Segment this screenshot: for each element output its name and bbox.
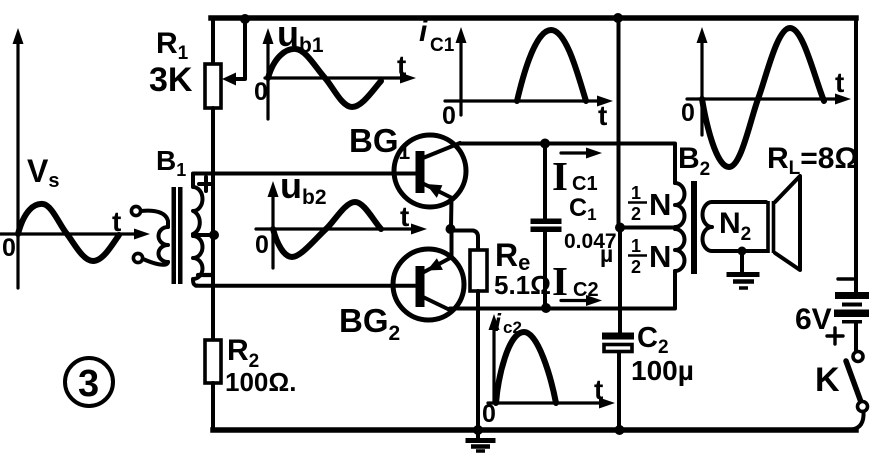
node: C2 / ground rail junction (615, 425, 625, 435)
svg-text:BG1: BG1 (349, 122, 411, 164)
transistor BG1 emitter stroke with PNP arrow (424, 184, 452, 198)
speaker coil box top/bottom (712, 202, 766, 251)
svg-text:RL=8Ω: RL=8Ω (767, 142, 859, 179)
wire: battery to switch terminal (854, 322, 858, 351)
resistor Re body (470, 250, 487, 291)
wire: right edge down to battery (854, 18, 858, 293)
node: top rail / mid rail junction (613, 13, 623, 23)
svg-text:C1: C1 (569, 194, 597, 224)
switch K blade (846, 361, 861, 402)
transformer B2 secondary N2 winding (703, 202, 712, 251)
svg-text:µ: µ (600, 241, 613, 267)
wire: bottom ground rail (213, 427, 856, 433)
svg-text:I: I (552, 153, 568, 199)
wire: BG2 base line (196, 284, 417, 288)
wire: BG1 base line (193, 172, 418, 176)
battery 6V plates (835, 292, 869, 299)
transistor BG1 circle (394, 135, 466, 207)
svg-text:B1: B1 (156, 145, 186, 180)
wire: BG2 emitter lead up to emitter node (450, 231, 454, 257)
wire: BG1 emitter lead down to emitter node (449, 198, 454, 227)
label - polarity at secondary bottom (198, 273, 212, 277)
transistor BG2 collector stroke (423, 297, 452, 311)
waveform: i_c2 half-sine pulse (496, 332, 556, 403)
svg-text:3: 3 (78, 363, 99, 405)
transformer B1 primary winding (159, 227, 169, 262)
svg-text:0: 0 (681, 99, 695, 127)
wire: BG1 collector line to B2 top (459, 144, 675, 184)
svg-text:2: 2 (631, 257, 641, 277)
wire: R2 bottom lead to ground rail (211, 383, 215, 430)
wire: BG2 collector line to B2 bottom (450, 271, 675, 309)
svg-text:K: K (815, 361, 840, 399)
svg-text:t: t (835, 67, 844, 98)
graph: u_b1 vertical axis (266, 38, 269, 119)
capacitor C2 plates (602, 333, 634, 340)
node: C1 top junction on collector line (540, 139, 550, 149)
wire: emitter node over to Re top (451, 231, 479, 251)
switch K top terminal (853, 352, 863, 362)
svg-text:B2: B2 (678, 142, 710, 180)
wire: B1 primary bottom to input bottom terminal (143, 259, 168, 265)
graph: u_b2 horizontal axis (256, 227, 417, 230)
svg-text:Vs: Vs (27, 153, 59, 192)
switch K bottom terminal (858, 402, 868, 412)
svg-text:0: 0 (442, 102, 456, 130)
node: C1 bottom junction on collector line (541, 303, 551, 313)
graph: i_c1 vertical axis (459, 37, 462, 115)
svg-text:6V: 6V (795, 303, 832, 336)
figure number 3 circled (65, 358, 113, 406)
node: common emitter junction (446, 224, 456, 234)
graph: output horizontal axis (687, 97, 841, 100)
svg-text:C1: C1 (572, 173, 598, 195)
transformer B2 primary lower half winding (675, 229, 685, 271)
ground symbol under N2 (740, 251, 744, 272)
label + polarity at secondary top (199, 177, 213, 191)
svg-text:100µ: 100µ (631, 355, 694, 386)
label plus battery (827, 328, 843, 344)
capacitor C1 plates (531, 219, 562, 225)
transistor BG1 collector stroke (423, 143, 460, 158)
svg-text:t: t (598, 100, 607, 131)
transformer B2 core bar (691, 181, 697, 274)
svg-text:N: N (649, 239, 671, 274)
svg-text:t: t (594, 374, 603, 405)
svg-text:3K: 3K (149, 61, 193, 99)
node: top rail / wiper junction (240, 14, 250, 24)
svg-text:R1: R1 (156, 27, 189, 64)
transistor BG2 circle (393, 249, 464, 320)
terminal: input bottom (133, 253, 142, 262)
svg-text:5.1Ω: 5.1Ω (494, 270, 551, 300)
svg-text:C2: C2 (637, 322, 669, 358)
wire: supply mid rail upper (top rail to center tap) (617, 18, 621, 227)
graph: output vertical axis (700, 37, 703, 135)
wire: switch to ground rail (852, 412, 864, 430)
node: center-tap / divider junction (209, 230, 219, 240)
wiper arrowhead (222, 73, 236, 86)
wire: top terminal into B1 primary (141, 211, 168, 227)
node: center tap junction on mid rail (615, 223, 625, 233)
graph: i_c1 horizontal axis (445, 99, 603, 102)
ground symbol below rail (476, 430, 480, 439)
transformer B2 primary upper half winding (675, 183, 685, 227)
svg-text:t: t (400, 201, 409, 232)
waveform: output sine (702, 28, 824, 167)
waveform: u_b2 sine inverted (273, 202, 381, 257)
transistor BG2 base bar (416, 266, 425, 307)
svg-text:i: i (419, 15, 428, 48)
wire: R1 top lead from top-left corner (211, 18, 215, 64)
wire: B1 center tap to bias divider node (193, 233, 212, 237)
transformer B1 secondary lower half winding (193, 236, 203, 286)
wire: C1 top lead (543, 144, 547, 219)
svg-text:0: 0 (254, 78, 268, 106)
transistor BG2 emitter stroke with PNP arrow (424, 257, 452, 272)
wire: R1 bottom lead down through center-tap node to R2 (211, 108, 215, 340)
transformer B1 secondary upper half winding (193, 174, 203, 234)
label minus battery (838, 277, 853, 280)
resistor R1 body (205, 64, 221, 108)
transistor BG1 base bar (416, 151, 425, 193)
node: Re / ground rail junction (473, 425, 483, 435)
wire: Re bottom lead to ground rail (476, 291, 480, 430)
wire: top supply rail (211, 15, 856, 21)
waveform: Vs sine (18, 204, 119, 261)
svg-text:2: 2 (631, 204, 641, 224)
graph: u_b2 vertical axis (271, 190, 274, 268)
wire: R1 wiper arm from top rail (232, 19, 245, 79)
node: N2 bottom ground tap (738, 247, 747, 256)
svg-text:I: I (552, 258, 568, 304)
transformer B1 core bars (172, 187, 177, 284)
svg-text:1: 1 (631, 236, 641, 256)
svg-text:BG2: BG2 (339, 302, 400, 345)
svg-text:C1: C1 (430, 35, 455, 56)
waveform: i_c1 half-sine pulse (517, 30, 586, 101)
terminal: input top (131, 206, 140, 215)
graph: i_c2 horizontal axis (488, 401, 605, 404)
graph: i_c2 vertical axis (492, 324, 495, 403)
waveform: u_b1 sine (268, 49, 381, 107)
svg-text:100Ω.: 100Ω. (225, 367, 296, 397)
wire: supply mid rail lower (center tap to C2) (618, 229, 622, 333)
resistor R2 body (205, 340, 221, 383)
svg-text:i: i (494, 309, 502, 337)
speaker horn (775, 176, 800, 270)
svg-text:N2: N2 (719, 207, 751, 245)
graph: Vs vertical axis (16, 38, 19, 288)
svg-text:t: t (397, 50, 406, 81)
svg-text:0: 0 (2, 234, 16, 262)
label I_C1 current with arrow (561, 151, 592, 154)
svg-text:N: N (649, 187, 671, 222)
graph: u_b1 horizontal axis (265, 76, 406, 79)
graph: Vs horizontal axis (0, 232, 140, 235)
wire: B2 center tap over to mid rail (621, 226, 675, 230)
wire: C2 bottom lead to ground rail (617, 352, 621, 430)
svg-text:0: 0 (255, 231, 269, 259)
svg-text:C2: C2 (573, 279, 599, 301)
speaker driver back double lines (768, 201, 774, 253)
wire: C1 bottom lead (543, 232, 547, 308)
svg-text:1: 1 (631, 183, 641, 203)
